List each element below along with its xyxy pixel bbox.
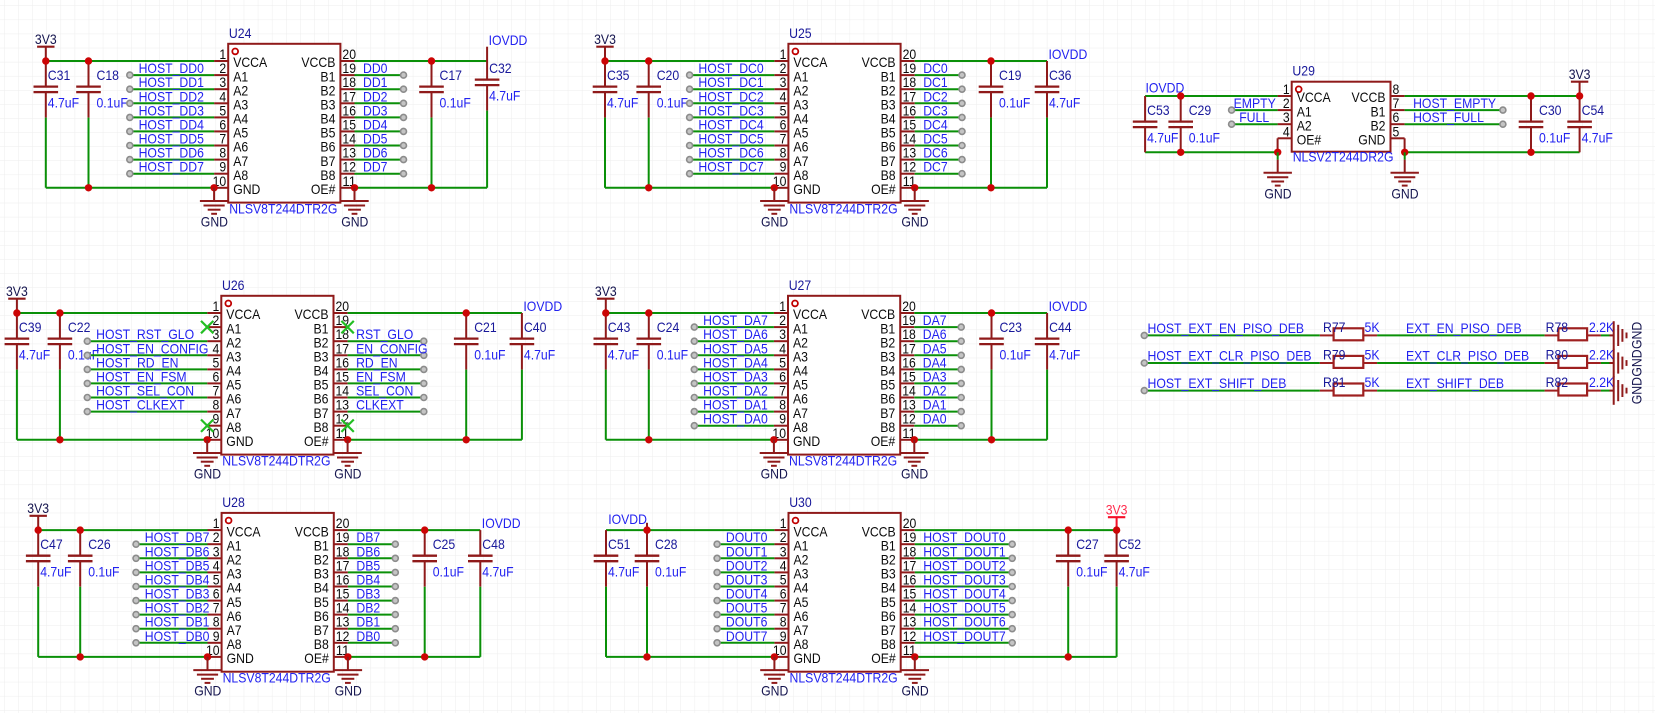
IC U29 left pin names xyxy=(1297,89,1332,147)
wire signal from pin 16 xyxy=(914,368,961,370)
wire end xyxy=(401,157,407,163)
svg-text:GND: GND xyxy=(1391,185,1418,201)
wire signal from pin 16 xyxy=(915,116,962,118)
junction xyxy=(1576,92,1583,99)
svg-text:C39: C39 xyxy=(19,319,42,335)
svg-text:C28: C28 xyxy=(655,536,678,552)
wire end xyxy=(421,395,427,401)
wire U24 top-left supply rail xyxy=(46,60,214,62)
svg-text:C51: C51 xyxy=(608,536,631,552)
wire signal to pin 5 xyxy=(694,368,774,370)
svg-text:R79: R79 xyxy=(1323,347,1346,363)
wire end xyxy=(1141,360,1147,366)
wire end xyxy=(714,598,720,604)
svg-text:GND: GND xyxy=(794,650,821,666)
wire U24 bottom-right ground rail xyxy=(355,187,488,189)
IC U25 left pin stubs 1-10 xyxy=(774,61,788,188)
wire end xyxy=(127,72,133,78)
wire signal to pin 2 xyxy=(136,543,208,545)
wire HOST_EXT_EN_PISO_DEB xyxy=(1144,334,1320,336)
wire U29 bottom-right ground rail xyxy=(1405,151,1580,153)
junction xyxy=(428,57,435,64)
svg-text:HOST_DOUT7: HOST_DOUT7 xyxy=(923,628,1006,644)
svg-text:2.2K: 2.2K xyxy=(1589,319,1615,335)
wire end xyxy=(714,555,720,561)
svg-text:C47: C47 xyxy=(40,536,63,552)
svg-text:0.1uF: 0.1uF xyxy=(1539,130,1570,146)
wire HOST_EXT_CLR_PISO_DEB xyxy=(1144,362,1320,364)
svg-text:GND: GND xyxy=(233,181,260,197)
wire end xyxy=(392,626,398,632)
wire signal to pin 8 xyxy=(690,159,775,161)
wire end xyxy=(959,128,965,134)
wire signal from pin 13 xyxy=(355,159,404,161)
svg-text:IOVDD: IOVDD xyxy=(608,511,647,527)
wire signal to pin 2 xyxy=(690,74,775,76)
wire signal to pin 7 xyxy=(136,614,208,616)
wire signal from pin 14 xyxy=(914,397,961,399)
IC U24 NLSV8T244DTR2G body xyxy=(228,44,340,203)
wire end xyxy=(401,100,407,106)
svg-text:GND: GND xyxy=(793,181,820,197)
IC U25 left pin numbers xyxy=(773,46,787,189)
IC U30 left pin numbers xyxy=(773,515,787,658)
power 3V3 xyxy=(594,31,616,61)
IC U26 left pin names xyxy=(226,306,261,449)
junction xyxy=(643,653,650,660)
junction xyxy=(1527,149,1534,156)
svg-text:GND: GND xyxy=(341,214,368,230)
junction xyxy=(911,436,918,443)
power 3V3 xyxy=(1569,66,1591,96)
svg-text:GND: GND xyxy=(761,683,788,699)
svg-text:GND: GND xyxy=(901,466,928,482)
wire U29 top-right supply rail xyxy=(1405,95,1580,97)
svg-text:U25: U25 xyxy=(789,25,812,41)
svg-text:0.1uF: 0.1uF xyxy=(657,347,688,363)
wire signal to pin 4 xyxy=(130,102,214,104)
wire signal from pin 14 xyxy=(915,614,1012,616)
svg-text:HOST_EXT_EN_PISO_DEB: HOST_EXT_EN_PISO_DEB xyxy=(1148,320,1305,336)
wire signal from pin 17 xyxy=(355,102,404,104)
junction xyxy=(987,184,994,191)
capacitor C20 0.1uF xyxy=(636,61,661,188)
junction xyxy=(988,309,995,316)
svg-text:U28: U28 xyxy=(222,494,245,510)
wire end xyxy=(401,86,407,92)
wire signal to pin 5 xyxy=(690,116,775,118)
resistor R78 2.2K xyxy=(1545,328,1601,340)
capacitor C32 4.7uF xyxy=(475,54,500,188)
ground xyxy=(760,440,788,482)
junction xyxy=(42,57,49,64)
svg-text:0.1uF: 0.1uF xyxy=(1189,130,1220,146)
junction xyxy=(35,526,42,533)
junction xyxy=(911,653,918,660)
wire end xyxy=(421,338,427,344)
wire signal to pin 3 xyxy=(130,88,214,90)
svg-text:HOST_DA0: HOST_DA0 xyxy=(703,411,768,427)
wire end xyxy=(392,598,398,604)
wire signal from pin 18 xyxy=(348,557,395,559)
svg-text:EXT_SHIFT_DEB: EXT_SHIFT_DEB xyxy=(1406,375,1504,391)
wire signal from pin 13 xyxy=(348,628,395,630)
svg-text:OE#: OE# xyxy=(871,181,896,197)
wire signal from pin 19 xyxy=(355,74,404,76)
wire U28 top-right supply rail xyxy=(348,529,480,531)
wire end xyxy=(714,640,720,646)
wire signal to pin 7 xyxy=(87,397,207,399)
wire end xyxy=(1009,555,1015,561)
svg-text:0.1uF: 0.1uF xyxy=(999,95,1030,111)
wire end xyxy=(1500,121,1506,127)
wire end xyxy=(687,128,693,134)
wire U24 bottom-left ground rail xyxy=(46,187,214,189)
IC U30 right pin numbers xyxy=(903,515,917,658)
no-connect pin 12 xyxy=(341,420,353,432)
svg-text:DD7: DD7 xyxy=(363,159,388,175)
svg-text:GND: GND xyxy=(1264,185,1291,201)
svg-text:HOST_CLKEXT: HOST_CLKEXT xyxy=(96,397,185,413)
power 3V3 xyxy=(27,500,49,530)
wire end xyxy=(133,612,139,618)
svg-text:IOVDD: IOVDD xyxy=(1049,298,1088,314)
wire end xyxy=(714,612,720,618)
power IOVDD xyxy=(1049,46,1088,62)
wire U30 top-left supply rail xyxy=(606,529,774,531)
junction xyxy=(13,309,20,316)
wire end xyxy=(421,352,427,358)
wire signal to pin 9 xyxy=(136,642,208,644)
wire end xyxy=(687,157,693,163)
wire signal to pin 5 xyxy=(717,586,774,588)
junction xyxy=(1065,653,1072,660)
wire end xyxy=(1009,584,1015,590)
IC U28 left pin stubs 1-10 xyxy=(208,530,222,657)
junction xyxy=(421,653,428,660)
svg-text:R82: R82 xyxy=(1546,374,1569,390)
wire signal from pin 13 xyxy=(348,411,424,413)
wire signal from pin 13 xyxy=(915,159,962,161)
junction xyxy=(988,436,995,443)
IC U24 right pin numbers xyxy=(342,46,356,189)
svg-text:2.2K: 2.2K xyxy=(1589,347,1615,363)
junction xyxy=(1527,92,1534,99)
wire end xyxy=(392,640,398,646)
junction xyxy=(56,436,63,443)
wire signal to pin 9 xyxy=(690,173,775,175)
svg-text:GND: GND xyxy=(227,650,254,666)
junction xyxy=(463,436,470,443)
junction xyxy=(645,309,652,316)
wire end xyxy=(691,324,697,330)
svg-text:4.7uF: 4.7uF xyxy=(1582,130,1613,146)
power IOVDD xyxy=(1049,298,1088,314)
wire U26 bottom-right ground rail xyxy=(348,439,522,441)
svg-text:C52: C52 xyxy=(1119,536,1142,552)
wire end xyxy=(958,409,964,415)
wire signal to pin 8 xyxy=(130,159,214,161)
wire signal to pin 6 xyxy=(136,600,208,602)
svg-text:3V3: 3V3 xyxy=(594,31,616,47)
wire signal to pin 9 xyxy=(717,642,774,644)
IC U28 left pin numbers xyxy=(206,515,220,658)
wire U28 top-left supply rail xyxy=(38,529,207,531)
wire signal from pin 12 xyxy=(915,173,962,175)
wire signal to pin 5 xyxy=(130,116,214,118)
power IOVDD xyxy=(523,298,562,314)
IC U27 right pin names xyxy=(861,306,895,449)
wire U24 top-right supply rail xyxy=(355,60,488,62)
capacitor C47 4.7uF xyxy=(26,530,51,657)
capacitor C17 0.1uF xyxy=(419,61,444,188)
junction xyxy=(645,57,652,64)
svg-text:NLSV8T244DTR2G: NLSV8T244DTR2G xyxy=(789,200,897,216)
wire U28 bottom-right ground rail xyxy=(348,656,480,658)
junction xyxy=(601,57,608,64)
wire end xyxy=(127,100,133,106)
wire signal from pin 19 xyxy=(348,543,395,545)
wire end xyxy=(392,555,398,561)
IC U27 NLSV8T244DTR2G body xyxy=(788,296,900,455)
svg-text:DA0: DA0 xyxy=(923,411,947,427)
ground xyxy=(193,657,221,699)
wire U30 bottom-left ground rail xyxy=(606,656,774,658)
wire end xyxy=(127,157,133,163)
svg-text:C54: C54 xyxy=(1582,102,1605,118)
IC U24 right pin names xyxy=(301,54,335,197)
wire end xyxy=(1229,107,1235,113)
IC U27 left pin names xyxy=(793,306,828,449)
ground (rotated) xyxy=(1610,321,1645,349)
junction xyxy=(85,57,92,64)
wire signal to pin 8 xyxy=(87,411,207,413)
wire signal to pin 3 xyxy=(87,340,207,342)
svg-text:C29: C29 xyxy=(1189,102,1212,118)
svg-text:4.7uF: 4.7uF xyxy=(1049,347,1080,363)
junction xyxy=(428,184,435,191)
svg-text:C20: C20 xyxy=(657,67,680,83)
wire EXT_CLR_PISO_DEB xyxy=(1377,362,1545,364)
svg-text:HOST_DB0: HOST_DB0 xyxy=(145,628,210,644)
wire signal to pin 7 xyxy=(694,397,774,399)
svg-text:0.1uF: 0.1uF xyxy=(1076,564,1107,580)
svg-text:U29: U29 xyxy=(1292,63,1315,79)
wire end xyxy=(401,171,407,177)
svg-text:4.7uF: 4.7uF xyxy=(608,347,639,363)
capacitor C21 0.1uF xyxy=(454,313,479,440)
wire signal to pin 4 xyxy=(87,354,207,356)
wire end xyxy=(691,423,697,429)
capacitor C51 4.7uF xyxy=(594,530,619,657)
wire signal from pin 19 xyxy=(915,543,1012,545)
ground xyxy=(760,188,788,230)
junction xyxy=(204,436,211,443)
wire end xyxy=(958,366,964,372)
svg-text:OE#: OE# xyxy=(304,650,329,666)
wire signal from pin 15 xyxy=(914,382,961,384)
IC U28 right pin stubs 20-11 xyxy=(334,530,348,657)
svg-text:OE#: OE# xyxy=(871,650,896,666)
IC U30 right pin names xyxy=(862,523,896,666)
svg-text:GND: GND xyxy=(201,214,228,230)
capacitor C22 0.1uF xyxy=(48,313,73,440)
wire end xyxy=(687,171,693,177)
wire U26 bottom-left ground rail xyxy=(17,439,207,441)
wire end xyxy=(1009,569,1015,575)
wire end xyxy=(1009,626,1015,632)
svg-text:5K: 5K xyxy=(1365,374,1381,390)
svg-text:5K: 5K xyxy=(1365,319,1381,335)
wire signal from pin 13 xyxy=(914,411,961,413)
wire U25 top-right supply rail xyxy=(915,60,1047,62)
svg-text:U26: U26 xyxy=(222,277,245,293)
IC U26 right pin stubs 20-11 xyxy=(334,313,348,440)
junction xyxy=(1177,149,1184,156)
svg-text:R80: R80 xyxy=(1546,347,1569,363)
svg-text:0.1uF: 0.1uF xyxy=(655,564,686,580)
svg-text:0.1uF: 0.1uF xyxy=(657,95,688,111)
wire end xyxy=(687,72,693,78)
wire end xyxy=(959,72,965,78)
wire signal from pin 12 xyxy=(355,173,404,175)
svg-text:GND: GND xyxy=(1358,132,1385,148)
wire end xyxy=(133,584,139,590)
wire end xyxy=(958,352,964,358)
wire end xyxy=(1141,332,1147,338)
wire U27 bottom-right ground rail xyxy=(914,439,1047,441)
wire signal from pin 19 xyxy=(914,326,961,328)
wire end xyxy=(133,598,139,604)
wire signal from pin 14 xyxy=(355,145,404,147)
IC U24 left pin names xyxy=(233,54,268,197)
capacitor C18 0.1uF xyxy=(76,61,101,188)
svg-text:GND: GND xyxy=(1629,377,1645,404)
svg-text:4.7uF: 4.7uF xyxy=(524,347,555,363)
ground xyxy=(1404,152,1406,159)
wire end xyxy=(959,100,965,106)
svg-text:C17: C17 xyxy=(440,67,463,83)
svg-text:EXT_CLR_PISO_DEB: EXT_CLR_PISO_DEB xyxy=(1406,348,1529,364)
wire signal from pin 12 xyxy=(914,425,961,427)
svg-text:C48: C48 xyxy=(482,536,505,552)
svg-text:C21: C21 xyxy=(474,319,497,335)
wire end xyxy=(959,171,965,177)
svg-text:C35: C35 xyxy=(607,67,630,83)
wire signal from pin 16 xyxy=(348,586,395,588)
svg-text:GND: GND xyxy=(793,433,820,449)
svg-text:HOST_EXT_CLR_PISO_DEB: HOST_EXT_CLR_PISO_DEB xyxy=(1148,348,1312,364)
svg-text:C19: C19 xyxy=(999,67,1022,83)
svg-text:NLSV8T244DTR2G: NLSV8T244DTR2G xyxy=(223,670,331,686)
wire signal to pin 7 xyxy=(717,614,774,616)
svg-text:FULL: FULL xyxy=(1239,109,1269,125)
svg-text:IOVDD: IOVDD xyxy=(489,32,528,48)
capacitor C40 4.7uF xyxy=(510,313,535,440)
wire end xyxy=(421,409,427,415)
junction xyxy=(1113,526,1120,533)
power 3V3 xyxy=(35,31,57,61)
IC U30 left pin names xyxy=(794,523,829,666)
wire signal to pin 5 xyxy=(87,368,207,370)
wire end xyxy=(714,569,720,575)
IC U27 left pin stubs 1-10 xyxy=(774,313,788,440)
IC U28 NLSV8T244DTR2G body xyxy=(222,513,334,672)
svg-text:HOST_FULL: HOST_FULL xyxy=(1413,109,1484,125)
wire signal from pin 18 xyxy=(915,88,962,90)
svg-text:C27: C27 xyxy=(1076,536,1099,552)
wire signal to pin 6 xyxy=(694,382,774,384)
svg-text:5K: 5K xyxy=(1365,347,1381,363)
wire signal to pin 4 xyxy=(717,571,774,573)
IC U28 left pin names xyxy=(227,523,262,666)
wire end xyxy=(958,395,964,401)
wire end xyxy=(714,584,720,590)
wire U29 top-left supply rail xyxy=(1145,95,1278,97)
capacitor C43 4.7uF xyxy=(594,313,619,440)
wire signal from pin 15 xyxy=(348,600,395,602)
svg-text:GND: GND xyxy=(335,683,362,699)
svg-text:0.1uF: 0.1uF xyxy=(474,347,505,363)
wire U27 bottom-left ground rail xyxy=(606,439,774,441)
junction xyxy=(770,436,777,443)
svg-text:4.7uF: 4.7uF xyxy=(48,95,79,111)
junction xyxy=(344,436,351,443)
wire signal from pin 15 xyxy=(355,130,404,132)
wire signal to pin 4 xyxy=(694,354,774,356)
wire to ground xyxy=(1601,334,1610,336)
ground xyxy=(200,188,228,230)
wire signal to pin 3 xyxy=(690,88,775,90)
wire signal from pin 18 xyxy=(914,340,961,342)
svg-text:5: 5 xyxy=(1393,123,1400,139)
wire end xyxy=(687,114,693,120)
svg-text:C36: C36 xyxy=(1049,67,1072,83)
capacitor C28 0.1uF xyxy=(635,530,660,657)
wire U30 bottom-right ground rail xyxy=(915,656,1117,658)
IC U29 left pin stubs 1-4 xyxy=(1278,96,1292,138)
wire signal to pin 4 xyxy=(136,571,208,573)
capacitor C30 0.1uF xyxy=(1519,96,1544,152)
capacitor C29 0.1uF xyxy=(1168,96,1193,152)
wire EXT_EN_PISO_DEB xyxy=(1377,334,1545,336)
wire signal from pin 12 xyxy=(915,642,1012,644)
svg-text:4.7uF: 4.7uF xyxy=(1147,130,1178,146)
wire end xyxy=(401,128,407,134)
IC U27 right pin stubs 20-11 xyxy=(900,313,914,440)
wire end xyxy=(691,395,697,401)
svg-text:4.7uF: 4.7uF xyxy=(1049,95,1080,111)
wire signal to pin 6 xyxy=(87,382,207,384)
ground (rotated) xyxy=(1610,376,1645,404)
wire signal to pin 4 xyxy=(690,102,775,104)
svg-text:HOST_EXT_SHIFT_DEB: HOST_EXT_SHIFT_DEB xyxy=(1148,375,1287,391)
wire end xyxy=(1141,388,1147,394)
resistor R82 2.2K xyxy=(1545,384,1601,396)
IC U24 left pin numbers xyxy=(213,46,227,189)
svg-text:3V3: 3V3 xyxy=(27,500,49,516)
svg-text:C44: C44 xyxy=(1049,319,1072,335)
wire HOST_EMPTY from pin 7 xyxy=(1405,109,1503,111)
wire end xyxy=(959,114,965,120)
svg-text:GND: GND xyxy=(194,466,221,482)
no-connect pin 9 xyxy=(201,420,213,432)
wire end xyxy=(959,143,965,149)
svg-text:IOVDD: IOVDD xyxy=(1049,46,1088,62)
ground xyxy=(901,188,929,230)
svg-text:3V3: 3V3 xyxy=(1569,66,1591,82)
junction xyxy=(85,184,92,191)
